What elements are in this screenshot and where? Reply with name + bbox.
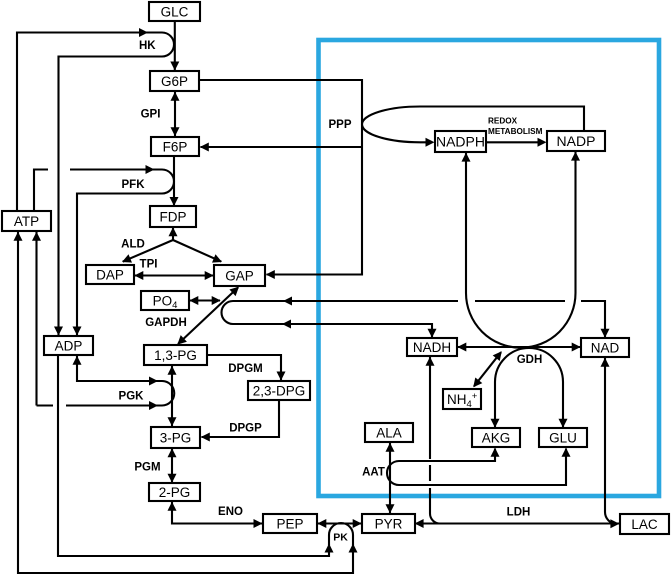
svg-text:2,3-DPG: 2,3-DPG xyxy=(253,383,306,398)
svg-text:ADP: ADP xyxy=(55,338,83,353)
svg-text:2-PG: 2-PG xyxy=(159,485,191,500)
wire PK coupling loop (arch) xyxy=(329,523,353,545)
wire GAPDH coupling loop (arc) xyxy=(222,301,234,324)
node NADH xyxy=(407,338,457,356)
node G6P xyxy=(150,71,199,91)
node NADP xyxy=(547,131,605,151)
svg-text:PFK: PFK xyxy=(122,179,146,191)
node ALA xyxy=(365,423,413,442)
svg-text:LAC: LAC xyxy=(631,517,658,532)
wire GAP-1,3-PG reversible diagonal (GAPDH) xyxy=(178,288,238,345)
wire PPP return to F6P xyxy=(201,146,363,148)
svg-text:GDH: GDH xyxy=(517,354,543,366)
wire GAPDH loop to NADH xyxy=(233,324,432,338)
node AKG xyxy=(472,428,520,447)
svg-text:AKG: AKG xyxy=(482,430,511,445)
node NH4+ xyxy=(443,389,481,409)
wire 3-PG-2-PG reversible (PGM) xyxy=(171,449,173,483)
node 3-PG xyxy=(151,427,200,448)
svg-text:PEP: PEP xyxy=(276,516,303,531)
redox compartment frame (blue box) xyxy=(319,40,660,496)
wire redox line to NAD (with gaps at GDH loop crossings) xyxy=(233,300,458,302)
svg-text:PYR: PYR xyxy=(375,516,403,531)
svg-text:DPGM: DPGM xyxy=(228,363,263,375)
wire NADH-NAD reversible (GDH) xyxy=(458,346,581,348)
node ATP xyxy=(2,211,51,231)
wire PGK loop to ATP (with gap) xyxy=(66,404,162,406)
node ADP xyxy=(44,336,93,355)
wire GDH to AKG and GLU (arch) xyxy=(495,348,563,428)
node NAD xyxy=(581,338,629,357)
svg-text:GAP: GAP xyxy=(225,268,254,283)
svg-text:1,3-PG: 1,3-PG xyxy=(154,348,197,363)
wire NADP via PPP loop to NADPH xyxy=(362,107,584,143)
svg-text:TPI: TPI xyxy=(140,259,158,271)
svg-text:DPGP: DPGP xyxy=(229,423,262,435)
svg-text:PK: PK xyxy=(333,531,348,543)
svg-text:3-PG: 3-PG xyxy=(160,430,192,445)
node GLC xyxy=(149,2,200,21)
node PYR xyxy=(362,514,415,533)
wire PGK coupling loop (arc) xyxy=(162,381,174,406)
wire GDH-NH4 reversible diagonal xyxy=(474,352,501,386)
wire 2,3-DPG to 3-PG (DPGP) xyxy=(202,400,280,437)
wire GDH big loop NADPH/NADP (U shape) xyxy=(466,152,576,348)
wire G6P-F6P reversible (GPI) xyxy=(174,92,176,136)
node 2-PG xyxy=(149,483,200,501)
wire NADPH to NADP (redox metabolism) xyxy=(486,141,539,143)
svg-text:NADH: NADH xyxy=(413,340,451,355)
svg-text:GLC: GLC xyxy=(161,4,189,19)
node PEP xyxy=(263,514,317,533)
wire NAD riser to LDH xyxy=(605,358,617,524)
wire PEP-PYR reversible (PK) xyxy=(318,522,362,524)
svg-text:PPP: PPP xyxy=(328,119,351,131)
svg-text:NADPH: NADPH xyxy=(436,134,485,150)
svg-text:GLU: GLU xyxy=(549,430,577,445)
wire AAT coupling loop (arc) xyxy=(387,461,399,485)
node LAC xyxy=(620,514,669,534)
svg-text:PGM: PGM xyxy=(134,462,160,474)
svg-text:ALA: ALA xyxy=(376,425,402,440)
node FDP xyxy=(150,206,196,227)
wire FDP to ALD split xyxy=(172,228,174,241)
wire DAP-GAP reversible (TPI) xyxy=(135,274,214,276)
wire PYR-LAC reversible (LDH) xyxy=(415,522,619,524)
wire F6P to FDP xyxy=(173,156,175,206)
wire G6P to PPP trunk and return to GAP xyxy=(199,80,362,275)
wire NADH riser to LDH (with gaps at AAT crossings) xyxy=(430,357,440,524)
wire ATP to PFK elbow (with gap) xyxy=(34,170,48,212)
svg-text:GPI: GPI xyxy=(141,109,161,121)
svg-text:NAD: NAD xyxy=(591,340,620,355)
wire GLC to G6P xyxy=(174,21,176,70)
node 2,3-DPG xyxy=(248,381,310,400)
svg-text:G6P: G6P xyxy=(161,74,188,89)
svg-text:ENO: ENO xyxy=(218,506,243,518)
svg-text:GAPDH: GAPDH xyxy=(145,317,187,329)
svg-text:ALD: ALD xyxy=(121,239,145,251)
svg-text:PGK: PGK xyxy=(119,391,145,403)
wire ALA-PYR reversible (AAT) xyxy=(389,443,391,513)
wire ADP to PK input xyxy=(58,356,329,556)
wire AAT loop to GLU xyxy=(399,449,566,486)
svg-text:HK: HK xyxy=(139,40,156,52)
svg-text:DAP: DAP xyxy=(96,267,124,282)
svg-text:F6P: F6P xyxy=(163,139,188,154)
wire PFK ATP arrow into loop, loop, exit to ADP xyxy=(70,168,162,170)
svg-text:REDOX: REDOX xyxy=(488,117,518,126)
node DAP xyxy=(86,265,134,284)
svg-text:FDP: FDP xyxy=(160,209,187,224)
wire PO4 to GAPDH reaction xyxy=(190,299,220,301)
node GAP xyxy=(214,265,265,286)
wire 1,3-PG to 2,3-DPG (DPGM) xyxy=(207,355,281,380)
svg-text:AAT: AAT xyxy=(362,467,385,479)
wire AAT loop to AKG xyxy=(399,449,495,462)
svg-text:ATP: ATP xyxy=(14,214,39,229)
wire ATP to HK loop (top) and HK loop to ADP (bottom) xyxy=(17,33,162,212)
wire 1,3-PG-3-PG reversible (PGK) xyxy=(171,366,173,426)
svg-text:NADP: NADP xyxy=(557,133,596,149)
svg-text:METABOLISM: METABOLISM xyxy=(488,127,543,136)
svg-text:LDH: LDH xyxy=(507,507,531,519)
node NADPH xyxy=(435,131,486,152)
wire ADP to PGK loop xyxy=(77,356,162,381)
node F6P xyxy=(151,137,199,156)
node 1,3-PG xyxy=(144,345,207,365)
wire 2-PG to PEP (ENO) xyxy=(172,502,262,524)
wire PK to ATP output xyxy=(18,232,353,573)
node PO4 xyxy=(141,291,189,310)
node GLU xyxy=(539,428,587,447)
